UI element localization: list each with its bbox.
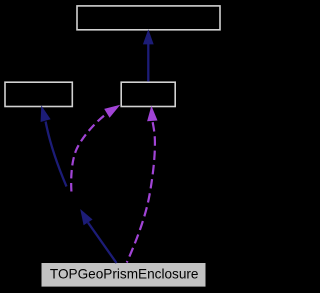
inheritance arrow: TOPGeoPrismEnclosure to hidden node (solid blue straight) (80, 209, 116, 263)
node TObject (top box, empty label) (77, 6, 220, 30)
usage arrow: hidden node to right box corner (dashed purple curve) (71, 105, 120, 192)
usage arrow: TOPGeoPrismEnclosure to right box (dashed purple curve) (127, 106, 158, 263)
svg-text:TOPGeoPrismEnclosure: TOPGeoPrismEnclosure (50, 267, 199, 282)
node left box (empty label) (5, 82, 72, 106)
inheritance arrow: right box to TObject (solid blue vertical) (143, 29, 154, 81)
node right box (empty label) (121, 82, 175, 106)
node TOPGeoPrismEnclosure (bottom grey box) (42, 263, 206, 287)
inheritance arrow: hidden node to left box (solid blue curve) (41, 105, 67, 186)
